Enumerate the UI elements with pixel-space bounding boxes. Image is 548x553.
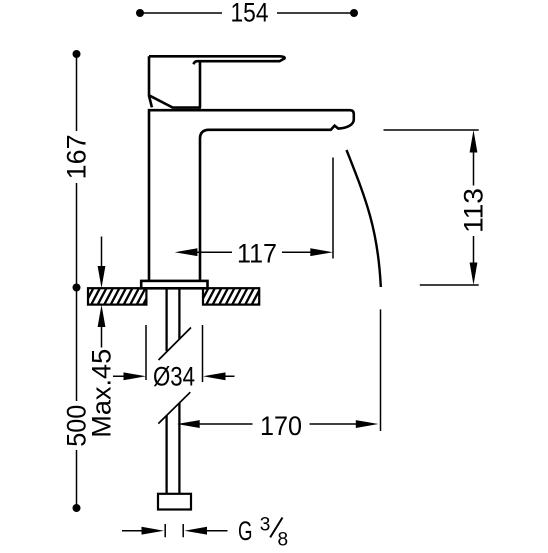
svg-text:8: 8 — [278, 529, 289, 549]
svg-text:167: 167 — [62, 134, 92, 179]
svg-text:170: 170 — [260, 411, 302, 441]
svg-text:154: 154 — [231, 0, 269, 28]
svg-text:Max.45: Max.45 — [87, 349, 117, 438]
svg-text:113: 113 — [459, 188, 489, 233]
svg-text:G: G — [238, 516, 253, 546]
svg-text:Ø34: Ø34 — [153, 362, 195, 392]
svg-text:3: 3 — [260, 514, 271, 536]
svg-text:117: 117 — [237, 239, 277, 269]
